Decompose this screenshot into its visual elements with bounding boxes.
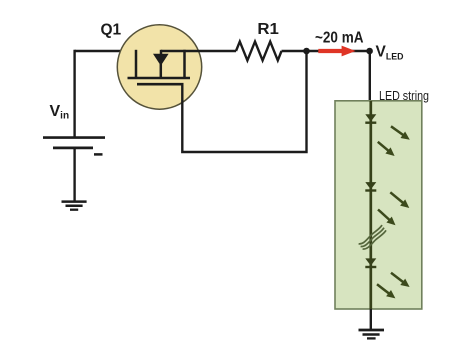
transistor Q1 right leg (source contact) (183, 50, 186, 78)
svg-text:~20 mA: ~20 mA (315, 30, 364, 47)
wire: Q1 source to R1 and on to VLED node (161, 50, 236, 52)
node A (junction dot after R1) (303, 48, 310, 55)
LED D3 (365, 258, 376, 265)
LED D1 (365, 114, 376, 121)
wire: battery to ground (73, 148, 75, 201)
resistor R1 (zigzag) (236, 42, 282, 61)
ground (right, below LED string) (359, 329, 385, 332)
LED D2 emission arrows (390, 192, 404, 204)
node VLED (junction dot) (366, 48, 373, 55)
LED string box (335, 101, 422, 309)
transistor Q1 arrow (pointing down to channel) (153, 54, 169, 66)
LED D3 emission arrows (391, 273, 405, 283)
battery minus sign (94, 153, 103, 156)
svg-text:LED string: LED string (379, 89, 429, 103)
battery Vin (bottom plate) (53, 146, 93, 149)
svg-text:R1: R1 (257, 21, 279, 38)
squiggle break symbol (more LEDs) (359, 225, 386, 249)
wire: LED string vertical (369, 101, 372, 309)
transistor Q1 (circle body) (117, 25, 201, 109)
wire: VLED node down to LED string box (369, 51, 371, 102)
wire: Vin top wire to Q1 drain (75, 50, 137, 52)
transistor Q1 channel line (128, 77, 191, 80)
transistor Q1 gate bar (lower line) (137, 83, 184, 86)
transistor Q1 left leg (drain contact) (135, 50, 138, 78)
svg-text:Q1: Q1 (101, 21, 122, 38)
wire: Vin left vertical drop to battery (73, 50, 75, 137)
wire: gate feedback loop (gate lead down, across, up to node A) (182, 51, 306, 152)
LED D1 emission arrows (391, 126, 405, 136)
ground (left, below battery) (62, 200, 87, 203)
wire: LED string to ground (370, 309, 372, 330)
current arrow ~20 mA (red) (318, 49, 342, 53)
battery Vin (top plate) (43, 136, 105, 139)
LED D2 (365, 182, 376, 189)
